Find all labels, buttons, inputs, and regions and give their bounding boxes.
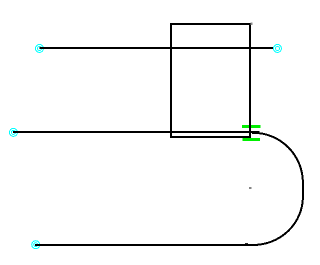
capacitor C1 top plate (selected, green) <box>242 125 261 128</box>
artifact tick above bottom wire <box>245 243 248 244</box>
wire: top horizontal from T1 to T3 <box>40 47 274 49</box>
terminal T4 (bottom-left port) <box>31 240 40 249</box>
wire: right curved loop <box>252 133 303 245</box>
center handle dot of curved wire <box>249 187 251 189</box>
terminal T1 (top-left port) <box>35 44 44 53</box>
wire: middle horizontal from T2 to curve <box>13 131 260 133</box>
capacitor C1 bottom plate (selected, green) <box>243 138 260 141</box>
wire: bottom horizontal from T4 to curve <box>35 244 257 246</box>
component body rectangle U1 <box>171 24 250 137</box>
handle dot at rectangle top-right corner <box>251 23 253 25</box>
terminal T2 (middle-left port) <box>9 128 18 137</box>
terminal T3 (top-right port) <box>273 44 282 53</box>
